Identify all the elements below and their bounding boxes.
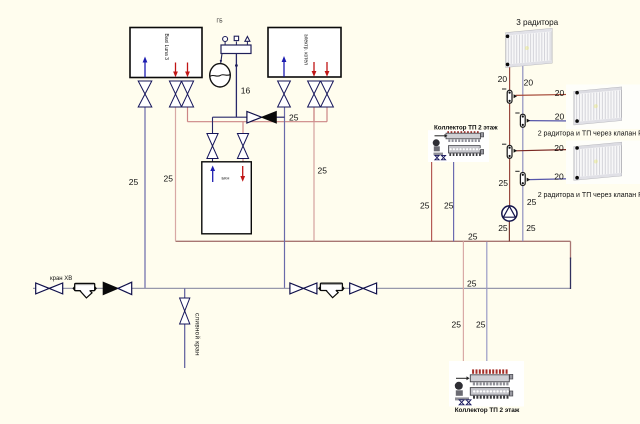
- wire: radiator red riser segments: [509, 66, 511, 91]
- tank return arrow (blue): [210, 166, 215, 183]
- wire: boiler1 valve3 drop to salmon header: [187, 107, 189, 122]
- wire: boiler2 red valve drop overdraw salmon: [313, 107, 315, 122]
- svg-text:сливной кран: сливной кран: [194, 313, 202, 356]
- expansion vessel: [210, 64, 231, 87]
- valve V7 tank cold: [207, 134, 218, 159]
- wire: tank hot valve stub lower: [242, 159, 244, 162]
- valve H1 (кран ХВ): [36, 283, 63, 294]
- collector K1 (top) background: [428, 130, 489, 162]
- radiator R1 connection dots: [506, 35, 510, 39]
- RTL valve S4 (blue riser rad3 feed): [515, 171, 530, 185]
- boiler B2 (electric boiler): [268, 28, 341, 78]
- svg-text:25: 25: [164, 174, 174, 184]
- svg-text:20: 20: [524, 78, 534, 88]
- radiator R3 connection dots: [575, 146, 579, 150]
- wire: boiler2 red valve2 drop: [326, 107, 328, 122]
- wire: pump outlet to supply main: [508, 220, 510, 241]
- valve V4 boiler2 return: [278, 81, 291, 107]
- wire: collector return drop (blue): [453, 160, 455, 241]
- boiler B2 return arrow (blue): [282, 56, 287, 77]
- svg-text:25: 25: [526, 223, 536, 233]
- wire: collector supply drop (red): [431, 160, 433, 242]
- svg-text:20: 20: [498, 74, 508, 84]
- dot on vessel link: [220, 60, 222, 62]
- svg-text:25: 25: [452, 320, 462, 330]
- valve V3 boiler1 supply b: [181, 81, 193, 107]
- svg-text:25: 25: [129, 177, 139, 187]
- safety valve (triangle): [245, 37, 250, 42]
- svg-text:БКН: БКН: [222, 176, 230, 181]
- wire: tank cold valve stub upper: [212, 117, 214, 133]
- DHW tank БКН: [202, 162, 252, 234]
- svg-text:2 радитора и ТП через клапан R: 2 радитора и ТП через клапан RTL: [538, 130, 640, 137]
- check valve CV2 (bottom left): [103, 282, 118, 294]
- safety group stems: [225, 42, 247, 46]
- wire: boiler1 return drop (blue) to bottom main: [144, 107, 146, 288]
- wire: rad2 blue feed: [528, 120, 576, 122]
- svg-text:Baxi Luna 3: Baxi Luna 3: [163, 34, 169, 61]
- bottom-middle: valve H2: [290, 283, 317, 294]
- wire: drain branch upper: [184, 288, 186, 298]
- svg-text:25: 25: [527, 197, 537, 207]
- RTL valve S1 (red riser rad2 feed): [502, 89, 517, 103]
- valve V8 tank hot: [237, 134, 248, 159]
- svg-text:25: 25: [498, 223, 508, 233]
- wire: bottom collector feed blue: [486, 242, 488, 363]
- air vent (square): [234, 36, 238, 40]
- svg-text:20: 20: [555, 112, 565, 122]
- wire: return main horizontal y=288.4: [33, 287, 571, 289]
- boiler B1 supply arrow 2 (red): [185, 63, 190, 78]
- PIPES-GROUP: [33, 54, 576, 369]
- wire: boiler2 red valve drop long (pale) to supply main: [313, 107, 315, 241]
- valve V2 boiler1 supply a: [169, 81, 181, 107]
- wire: boiler2 return drop (blue) to bottom main: [284, 107, 286, 288]
- svg-text:16: 16: [241, 86, 251, 96]
- wire: drain branch lower: [184, 324, 186, 368]
- svg-text:20: 20: [554, 143, 564, 153]
- svg-text:2 радитора и ТП через клапан R: 2 радитора и ТП через клапан RTL: [538, 192, 640, 199]
- svg-text:ГБ: ГБ: [217, 18, 224, 24]
- svg-text:25: 25: [468, 231, 478, 241]
- svg-text:Коллектор ТП 2 этаж: Коллектор ТП 2 этаж: [455, 407, 520, 414]
- pump P1: [502, 206, 517, 221]
- wire: bottom collector feed red: [462, 241, 464, 362]
- wire: right riser red part: [570, 241, 572, 259]
- safety group manifold: [221, 45, 251, 54]
- svg-text:25: 25: [444, 201, 454, 211]
- radiator R2 background: [566, 85, 640, 130]
- valve V6 boiler2 supply b: [321, 81, 334, 107]
- wire: salmon header y=121.7: [188, 121, 328, 123]
- wire: expansion vessel link: [221, 54, 222, 65]
- wire: navy header after check valve: [276, 116, 285, 118]
- radiator R1: [506, 29, 552, 68]
- boiler B2 supply arrow 1 (red): [312, 62, 317, 77]
- wire: rad3 red feed: [516, 149, 577, 150]
- wire: supply main horizontal y=241: [176, 240, 571, 242]
- boiler B2 supply arrow 2 (red): [325, 62, 330, 77]
- collector K1 manifold: [433, 131, 484, 160]
- svg-text:3 радитора: 3 радитора: [516, 18, 558, 27]
- wire: rad2 red feed: [516, 94, 577, 95]
- svg-text:25: 25: [467, 279, 477, 289]
- svg-text:25: 25: [420, 201, 430, 211]
- svg-text:20: 20: [554, 172, 564, 182]
- RTL valve S3 (red riser rad3 feed): [502, 144, 517, 158]
- wire: boiler1 supply drop (pale red) down to supply main corner: [175, 107, 177, 241]
- RTL valve S2 (blue riser rad2 feed): [515, 113, 530, 127]
- valve V5 boiler2 supply a: [308, 81, 321, 107]
- check valve CV1 (top, after boilers): [247, 112, 262, 124]
- junction dot on manifold drop: [235, 64, 238, 67]
- wire: right riser navy part: [570, 258, 572, 290]
- svg-text:кран ХВ: кран ХВ: [50, 276, 72, 282]
- svg-text:25: 25: [499, 178, 509, 188]
- pressure gauge (circle): [223, 37, 228, 42]
- RADIATORS: [506, 29, 640, 184]
- radiator R3: [574, 142, 622, 180]
- wire: tank cold valve stub lower: [212, 159, 214, 162]
- collector K2 manifold: [455, 369, 513, 404]
- tank supply arrow (red): [240, 166, 245, 182]
- svg-text:20: 20: [555, 88, 565, 98]
- filter F2 (strainer): [318, 283, 344, 298]
- boiler B1 supply arrow 1 (red): [173, 63, 178, 78]
- wire: navy header to check valve: [213, 116, 248, 118]
- collector K2 (bottom) background: [449, 361, 524, 407]
- radiator R2: [574, 87, 622, 125]
- svg-text:25: 25: [476, 320, 486, 330]
- boiler B1 return arrow (blue): [143, 57, 148, 78]
- boiler B1 (gas boiler): [130, 28, 202, 78]
- svg-text:25: 25: [289, 113, 299, 123]
- filter F1 (strainer): [73, 283, 97, 298]
- wire: navy drop from safety manifold: [235, 54, 237, 118]
- svg-text:электр. котел: электр. котел: [303, 34, 309, 65]
- valve H3: [350, 283, 377, 294]
- svg-text:Коллектор ТП 2 этаж: Коллектор ТП 2 этаж: [434, 125, 498, 132]
- valve V9 drain: [180, 298, 190, 324]
- valve V1 boiler1 return: [138, 81, 152, 107]
- wire: rad3 blue feed: [529, 179, 576, 180]
- svg-text:25: 25: [318, 166, 328, 176]
- radiator R2 connection dots: [575, 91, 579, 95]
- wire: radiator blue riser: [522, 66, 524, 241]
- radiator R3 background: [566, 141, 640, 185]
- wire: tank hot valve stub upper: [242, 122, 244, 134]
